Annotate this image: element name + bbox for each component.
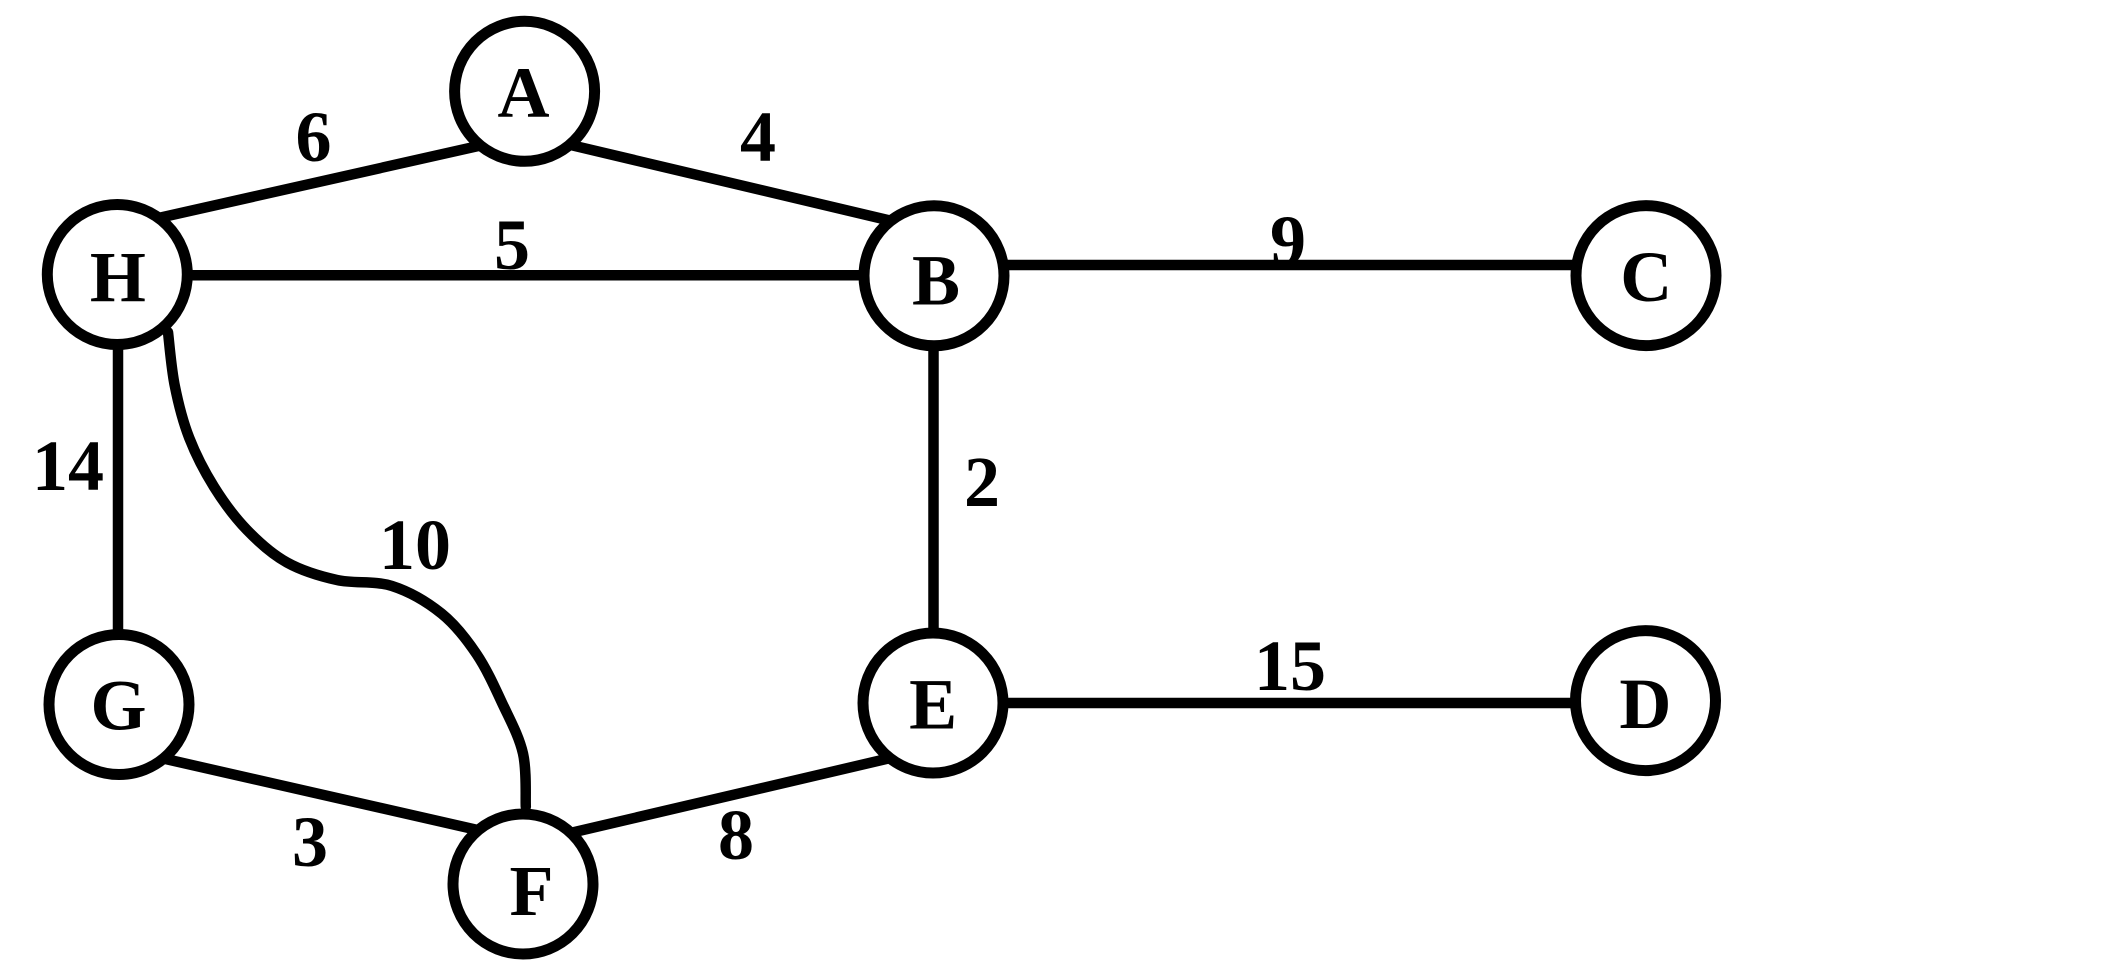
- svg-text:F: F: [510, 851, 554, 931]
- svg-text:C: C: [1620, 237, 1672, 317]
- svg-text:4: 4: [740, 97, 776, 177]
- node D circle: [1576, 631, 1716, 771]
- wire edge H-G: [113, 320, 124, 660]
- wire edge H-B: [150, 270, 900, 281]
- node A circle: [455, 21, 595, 161]
- wire edge H-F (curved): [168, 332, 526, 807]
- svg-text:6: 6: [296, 97, 332, 177]
- svg-text:9: 9: [1270, 201, 1306, 281]
- wire edge G-F: [136, 752, 499, 835]
- node F circle: [453, 814, 593, 954]
- svg-text:3: 3: [292, 802, 328, 882]
- svg-text:D: D: [1619, 664, 1671, 744]
- wire edge E-D: [980, 698, 1610, 709]
- node G circle: [49, 635, 189, 775]
- svg-text:2: 2: [964, 442, 1000, 522]
- svg-text:15: 15: [1254, 626, 1326, 706]
- wire edge B-C: [960, 260, 1620, 271]
- node E circle: [863, 633, 1003, 773]
- wire edge F-E: [544, 752, 918, 840]
- node B circle: [864, 206, 1004, 346]
- svg-text:G: G: [90, 666, 146, 746]
- wire edge H-A: [129, 138, 514, 225]
- svg-text:B: B: [912, 240, 960, 320]
- svg-text:H: H: [90, 237, 146, 317]
- svg-text:14: 14: [32, 426, 104, 506]
- wire edge A-B: [536, 137, 916, 227]
- svg-text:E: E: [909, 665, 957, 745]
- wire edge B-E: [928, 320, 939, 660]
- node C circle: [1576, 206, 1716, 346]
- node H circle: [47, 205, 187, 345]
- svg-text:5: 5: [494, 205, 530, 285]
- svg-text:10: 10: [379, 505, 451, 585]
- svg-text:8: 8: [718, 795, 754, 875]
- svg-text:A: A: [498, 53, 550, 133]
